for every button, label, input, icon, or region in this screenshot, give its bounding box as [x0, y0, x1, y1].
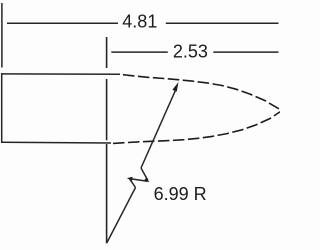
svg-text:4.81: 4.81: [122, 11, 157, 31]
zigzag arrowhead at B (points down-right): [144, 178, 150, 183]
zigzag arrowhead at C (points up-left): [127, 177, 133, 181]
body rectangle top edge: [1, 73, 120, 75]
centerline inside body: [106, 79, 108, 140]
dimension line 4.81 right segment: [166, 22, 279, 24]
svg-text:2.53: 2.53: [173, 41, 208, 61]
radius leader arrowhead at arc: [172, 82, 178, 92]
radius leader lower segment to center: [107, 188, 136, 243]
ogive top arc (dashed): [123, 75, 280, 110]
dimension line 4.81 left segment: [7, 22, 118, 24]
leader zigzag stroke B-C: [130, 179, 148, 182]
extension line left (for 4.81): [1, 3, 3, 68]
centerline extended below body to radius center: [106, 144, 108, 243]
body rectangle left edge: [1, 73, 3, 143]
leader zigzag stroke C-D: [130, 179, 136, 187]
ogive bottom arc (dashed): [113, 112, 280, 144]
extension line mid (for 2.53, body/nose junction): [106, 37, 108, 68]
dimension line 2.53 right segment: [213, 51, 278, 53]
leader zigzag stroke A-B: [141, 168, 148, 180]
dimension line 2.53 left segment: [111, 51, 168, 53]
body rectangle bottom edge: [1, 141, 111, 144]
svg-text:6.99 R: 6.99 R: [154, 184, 207, 204]
radius leader upper segment: [141, 88, 177, 168]
